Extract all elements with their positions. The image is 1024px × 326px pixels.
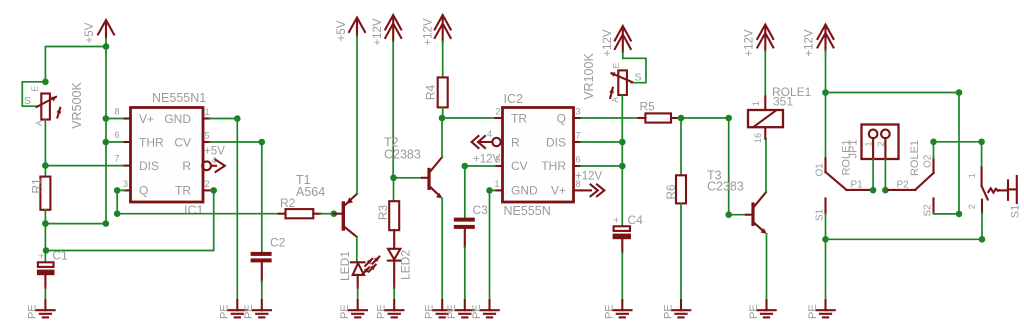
svg-text:S2: S2 bbox=[923, 204, 934, 217]
node corner T3 bbox=[725, 115, 732, 122]
wire base T2 bbox=[394, 177, 422, 179]
svg-text:PE: PE bbox=[376, 304, 388, 319]
resistor R1 bbox=[29, 177, 50, 210]
svg-text:1: 1 bbox=[967, 173, 977, 178]
svg-text:LED2: LED2 bbox=[399, 250, 413, 280]
LED LED1 bbox=[338, 251, 364, 301]
node C1 top bbox=[43, 247, 50, 254]
wire TR drop bbox=[210, 187, 217, 194]
op IC1 wires pins 8 6 bbox=[106, 119, 124, 143]
svg-text:+12V: +12V bbox=[423, 18, 435, 46]
svg-text:PE: PE bbox=[446, 304, 458, 319]
node DIS tap bbox=[42, 162, 49, 169]
node S1 top bbox=[978, 139, 985, 146]
node R3 top bbox=[390, 175, 397, 182]
node O2 bbox=[930, 139, 937, 146]
svg-text:16: 16 bbox=[753, 133, 763, 143]
svg-text:TR: TR bbox=[511, 112, 527, 126]
svg-text:+12V: +12V bbox=[473, 154, 501, 166]
node T3 base bbox=[725, 211, 732, 218]
svg-text:PE: PE bbox=[662, 304, 674, 319]
switch S1 bbox=[967, 142, 1021, 218]
ground IC1 GND bbox=[219, 300, 247, 319]
wire to PE bbox=[825, 239, 827, 300]
wire O2 cross bbox=[934, 141, 982, 143]
svg-text:C2: C2 bbox=[270, 235, 286, 249]
node rail right bbox=[956, 89, 963, 96]
svg-text:PE: PE bbox=[807, 304, 819, 319]
relay contact 2 (O2 P2 S2) bbox=[889, 154, 934, 216]
svg-text:A: A bbox=[610, 97, 620, 103]
svg-text:Q: Q bbox=[557, 112, 566, 126]
supply +5V at IC1 pin R (bubble arrow) bbox=[202, 146, 225, 172]
supply +12V at IC2 V+ (right arrows) bbox=[575, 171, 604, 197]
svg-text:THR: THR bbox=[541, 159, 566, 173]
resistor R2 bbox=[279, 196, 321, 219]
svg-text:+5V: +5V bbox=[336, 20, 348, 41]
supply +12V at IC2 pin R (bubble, left arrows) bbox=[472, 136, 501, 166]
svg-text:1: 1 bbox=[751, 101, 761, 106]
wire DIS tap bbox=[45, 165, 124, 167]
wire Q to R5 bbox=[581, 117, 639, 119]
svg-text:PE: PE bbox=[243, 304, 255, 319]
svg-text:PE: PE bbox=[219, 304, 231, 319]
node T1 base bbox=[331, 210, 338, 217]
wire +12V to relay bbox=[764, 51, 766, 97]
node +5V bottom bbox=[103, 220, 110, 227]
svg-text:6: 6 bbox=[115, 130, 120, 140]
svg-text:IC2: IC2 bbox=[504, 92, 524, 106]
wire Q feedback bbox=[117, 190, 278, 213]
svg-text:PE: PE bbox=[471, 304, 483, 319]
svg-text:S: S bbox=[24, 95, 31, 107]
svg-text:DIS: DIS bbox=[546, 135, 566, 149]
node pin6 bbox=[103, 139, 110, 146]
svg-text:THR: THR bbox=[139, 136, 164, 150]
wire R4 to IC2 TR bbox=[442, 117, 495, 119]
svg-text:GND: GND bbox=[164, 112, 191, 126]
capacitor C2 bbox=[251, 235, 286, 300]
svg-text:+12V: +12V bbox=[575, 171, 603, 183]
svg-text:C2383: C2383 bbox=[707, 180, 744, 194]
svg-text:1: 1 bbox=[495, 179, 500, 189]
node bottom right bbox=[979, 236, 986, 243]
wire T2 emitter to ground bbox=[441, 198, 443, 300]
wire JP1 pin2 bbox=[884, 159, 886, 190]
transistor T2 C2383 (NPN) bbox=[384, 135, 442, 198]
svg-text:VR500K: VR500K bbox=[70, 82, 84, 129]
wire pot A down bbox=[621, 95, 623, 226]
node DIS2 bbox=[619, 139, 626, 146]
ground C3 bbox=[446, 300, 474, 319]
svg-text:C4: C4 bbox=[628, 213, 644, 227]
ground LED1 bbox=[339, 300, 367, 319]
svg-text:+: + bbox=[613, 214, 619, 226]
svg-text:7: 7 bbox=[115, 154, 120, 164]
svg-text:R3: R3 bbox=[376, 205, 390, 221]
svg-text:+12V: +12V bbox=[744, 29, 756, 57]
LED2 emission arrows bbox=[369, 257, 380, 272]
wire CV to C2 bbox=[210, 142, 262, 252]
resistor R5 bbox=[638, 99, 677, 122]
supply +5V (left) bbox=[84, 20, 114, 43]
wire TR feedback to C1 bbox=[46, 190, 214, 250]
node CV bbox=[462, 163, 469, 170]
relay contact 1 (O1 P1 S1) bbox=[815, 159, 870, 222]
svg-text:2: 2 bbox=[967, 204, 977, 209]
svg-text:TR: TR bbox=[175, 183, 191, 197]
resistor R3 bbox=[376, 178, 399, 249]
wire CV to C3 bbox=[465, 166, 496, 218]
svg-text:ROLE1: ROLE1 bbox=[909, 140, 921, 176]
node pin8 bbox=[103, 115, 110, 122]
svg-text:R1: R1 bbox=[29, 178, 43, 194]
relay coil ROLE1 351 bbox=[748, 85, 812, 143]
svg-text:V+: V+ bbox=[139, 112, 154, 126]
IC1 NE555N1 (555 timer) bbox=[115, 91, 217, 218]
svg-text:R5: R5 bbox=[640, 99, 656, 113]
node Q corner bbox=[114, 210, 121, 217]
node IC2 GND bbox=[486, 187, 493, 194]
wire +5V vertical to IC1 bbox=[105, 47, 107, 224]
svg-text:IC1: IC1 bbox=[184, 204, 204, 218]
wire T3 emitter to ground bbox=[766, 234, 768, 300]
svg-text:+12V: +12V bbox=[804, 29, 816, 57]
wire node to T3 bbox=[681, 118, 746, 215]
svg-text:2: 2 bbox=[205, 179, 210, 189]
svg-text:O2: O2 bbox=[923, 154, 934, 168]
svg-text:NE555N: NE555N bbox=[504, 204, 551, 218]
svg-text:GND: GND bbox=[511, 183, 538, 197]
svg-text:S: S bbox=[635, 72, 642, 84]
wire pot A to R1 bbox=[44, 120, 46, 177]
svg-text:DIS: DIS bbox=[139, 159, 159, 173]
svg-text:CV: CV bbox=[174, 136, 191, 150]
svg-text:+: + bbox=[38, 251, 44, 263]
wire S1 down bbox=[981, 213, 983, 240]
node GND corner bbox=[234, 115, 241, 122]
resistor R4 bbox=[424, 41, 448, 118]
ground C4 bbox=[604, 300, 632, 319]
svg-text:C3: C3 bbox=[473, 203, 489, 217]
ground C1 bbox=[27, 300, 55, 319]
wire R2 to T1 bbox=[321, 213, 334, 215]
svg-text:JP1: JP1 bbox=[848, 140, 860, 159]
node S2 rail bbox=[956, 211, 963, 218]
wire S2 to rail bbox=[934, 212, 960, 215]
supply +12V (relay) bbox=[744, 25, 774, 57]
svg-text:R2: R2 bbox=[280, 196, 296, 210]
wire right rail bbox=[826, 51, 960, 214]
supply +12V (R4) bbox=[423, 15, 451, 46]
wire T3 collector to relay bbox=[765, 139, 767, 192]
transistor T1 A564 (PNP) bbox=[296, 173, 357, 237]
svg-text:PE: PE bbox=[748, 304, 760, 319]
node Q bbox=[114, 187, 121, 194]
svg-text:2: 2 bbox=[876, 141, 886, 146]
svg-text:3: 3 bbox=[576, 107, 581, 117]
svg-text:PE: PE bbox=[27, 304, 39, 319]
node bottom left bbox=[822, 236, 829, 243]
wire R1 bottom node bbox=[45, 210, 105, 251]
svg-text:PE: PE bbox=[339, 304, 351, 319]
svg-text:1: 1 bbox=[864, 141, 874, 146]
svg-text:R4: R4 bbox=[424, 85, 438, 101]
svg-text:3: 3 bbox=[123, 179, 128, 189]
svg-text:4: 4 bbox=[487, 129, 492, 139]
svg-text:C2383: C2383 bbox=[384, 147, 421, 161]
svg-text:O1: O1 bbox=[815, 163, 826, 177]
supply +12V (right rail) bbox=[804, 25, 834, 57]
svg-text:+5V: +5V bbox=[204, 146, 225, 158]
svg-text:R: R bbox=[182, 159, 191, 173]
svg-text:R: R bbox=[511, 135, 520, 149]
svg-text:8: 8 bbox=[115, 107, 120, 117]
ground right bbox=[807, 300, 835, 319]
node +5V junction bbox=[103, 43, 110, 50]
wire R5 to node bbox=[678, 117, 681, 119]
svg-text:1: 1 bbox=[205, 107, 210, 117]
svg-text:PE: PE bbox=[424, 304, 436, 319]
ground T2 bbox=[424, 300, 452, 319]
svg-text:VR100K: VR100K bbox=[582, 53, 596, 100]
ground T3 bbox=[748, 300, 776, 319]
svg-text:LED1: LED1 bbox=[338, 251, 352, 281]
svg-text:5: 5 bbox=[205, 131, 210, 141]
resistor R6 bbox=[664, 118, 686, 300]
svg-text:NE555N1: NE555N1 bbox=[152, 91, 206, 105]
node THR2 bbox=[619, 163, 626, 170]
supply +12V (VR100K) bbox=[602, 26, 631, 57]
svg-text:CV: CV bbox=[511, 159, 528, 173]
svg-text:A564: A564 bbox=[296, 185, 325, 199]
wire +12V to T2 base bbox=[392, 41, 394, 178]
node P1 bbox=[870, 187, 877, 194]
wire DIS2 bbox=[581, 141, 623, 143]
svg-text:E: E bbox=[30, 86, 40, 92]
LED LED2 bbox=[388, 249, 413, 300]
wire +5V to T1 emitter bbox=[356, 36, 358, 194]
svg-text:A: A bbox=[34, 120, 44, 126]
svg-text:Q: Q bbox=[139, 183, 148, 197]
LED1 emission arrows bbox=[362, 259, 372, 275]
wire S1 contact down bbox=[825, 214, 827, 240]
svg-text:P1: P1 bbox=[851, 179, 864, 190]
capacitor C3 bbox=[454, 203, 488, 300]
wire O2 up bbox=[933, 142, 935, 159]
supply +12V (T2 base) bbox=[372, 15, 401, 46]
svg-text:PE: PE bbox=[604, 304, 616, 319]
svg-text:V+: V+ bbox=[551, 183, 566, 197]
wire IC2 GND bbox=[490, 190, 496, 300]
svg-text:R6: R6 bbox=[664, 184, 678, 200]
svg-text:E: E bbox=[611, 63, 621, 69]
supply +5V (T1 emitter) bbox=[336, 18, 365, 42]
wire GND IC1 bbox=[210, 119, 238, 301]
wire T2 collector bbox=[441, 118, 443, 157]
svg-text:+12V: +12V bbox=[372, 18, 384, 46]
wire bottom rail bbox=[826, 238, 983, 240]
svg-text:7: 7 bbox=[576, 131, 581, 141]
svg-text:+5V: +5V bbox=[84, 22, 96, 43]
svg-text:+12V: +12V bbox=[602, 29, 614, 57]
svg-text:2: 2 bbox=[496, 107, 501, 117]
wire T1 collector to LED1 bbox=[356, 237, 358, 261]
wire JP1 pin1 bbox=[872, 159, 874, 190]
svg-text:C1: C1 bbox=[52, 249, 68, 263]
potentiometer VR100K bbox=[582, 52, 646, 103]
svg-text:S1: S1 bbox=[1009, 205, 1021, 218]
node rail left bbox=[822, 89, 829, 96]
ground IC2 bbox=[471, 300, 499, 319]
wire +5V rail top bbox=[45, 38, 106, 82]
jumper JP1 (relay contacts common) bbox=[841, 125, 922, 177]
svg-text:351: 351 bbox=[773, 95, 793, 109]
svg-text:6: 6 bbox=[576, 155, 581, 165]
node R4 bottom bbox=[439, 115, 446, 122]
svg-text:P2: P2 bbox=[897, 179, 910, 190]
node R1-C1 bbox=[42, 220, 49, 227]
ground LED2 bbox=[376, 300, 404, 319]
svg-text:S1: S1 bbox=[815, 208, 826, 221]
ground R6 bbox=[662, 300, 690, 319]
wire THR2 bbox=[581, 165, 623, 167]
IC2 NE555N (555 timer) bbox=[487, 92, 581, 218]
node R5 out bbox=[678, 115, 685, 122]
transistor T3 C2383 (NPN) bbox=[707, 169, 767, 234]
capacitor C1 bbox=[37, 249, 68, 301]
node CV corner bbox=[259, 139, 266, 146]
potentiometer VR500K bbox=[22, 79, 84, 129]
node P2 bbox=[882, 187, 889, 194]
capacitor C4 bbox=[613, 213, 644, 300]
ground C2 bbox=[243, 300, 271, 319]
